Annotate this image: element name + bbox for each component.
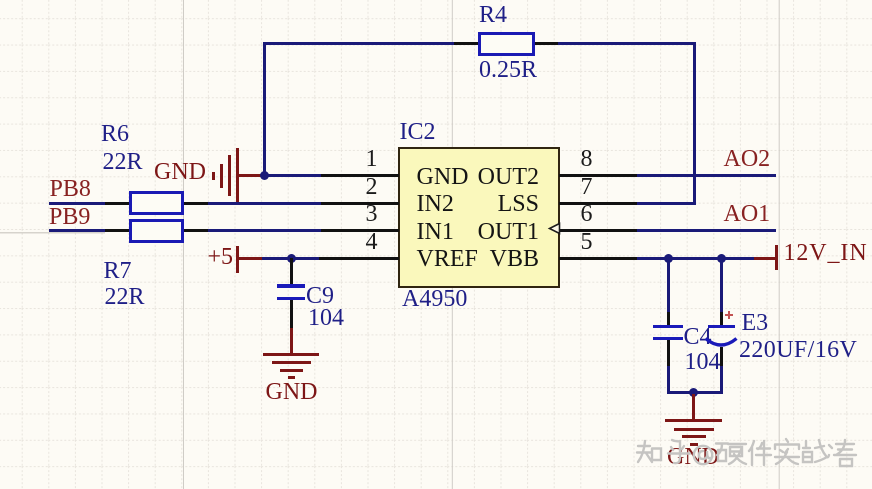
resistor R6 (105, 202, 130, 205)
net label AO2 + wire (724, 147, 771, 171)
IC U IC2 A4950 body (398, 147, 561, 288)
wire PB8 (49, 202, 106, 205)
net label PB9 (49, 205, 90, 229)
ground power port at IC pin 1 (239, 174, 262, 177)
wire top-left horizontal (R4 net to corner) (263, 42, 455, 45)
wire R6 to IC pin 2 (208, 202, 321, 205)
wire R4 right horizontal (558, 42, 697, 45)
ground power port below C9 (290, 328, 293, 353)
wire right vertical down to pin 7 (693, 42, 696, 205)
capacitor E3 (polarized) (720, 257, 723, 312)
pin 8 (OUT2) (559, 174, 637, 177)
wire +5 to IC pin 4 (262, 257, 319, 260)
wire joining C4/E3 bottoms (667, 391, 723, 394)
power port 12V_IN (754, 257, 775, 260)
node junction E3 top (717, 254, 726, 263)
pin 7 (LSS) (559, 202, 637, 205)
node junction at GND / pin1 / R4 net (260, 171, 269, 180)
capacitor C9 (290, 258, 293, 284)
wire pin1 to junction (261, 174, 321, 177)
wire R7 to IC pin 3 (208, 229, 321, 232)
capacitor C4 (667, 257, 670, 312)
pin 3 (IN1) (321, 229, 399, 232)
node junction +5 / C9 (287, 254, 296, 263)
pin 1 (GND) (321, 174, 399, 177)
node junction C4 top (664, 254, 673, 263)
wire left vertical down to GND node (263, 42, 266, 178)
ground power port bottom right (692, 394, 695, 420)
wire pin 5 (VBB net) (637, 257, 754, 260)
power port +5 (236, 246, 239, 273)
wire PB9 (49, 229, 106, 232)
net label PB8 (50, 177, 91, 201)
watermark 知乎@硬件实战君 (630, 436, 862, 470)
wire pin 7 to R4 vertical (637, 202, 696, 205)
pin 6 (OUT1) with input designator arrow (559, 229, 637, 232)
node junction bottom (689, 388, 698, 397)
pin 4 (VREF) (319, 257, 399, 260)
pin 2 (IN2) (321, 202, 399, 205)
resistor R7 (105, 229, 130, 232)
net label AO1 + wire (724, 202, 771, 226)
resistor R4 (454, 42, 480, 45)
pin 5 (VBB) (559, 257, 637, 260)
